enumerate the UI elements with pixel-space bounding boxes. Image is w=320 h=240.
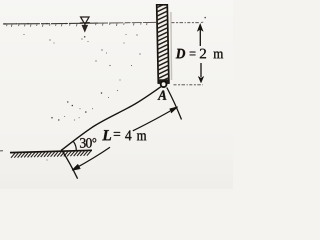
extension line at A bbox=[167, 88, 182, 120]
top ground tick marks bbox=[7, 23, 147, 27]
water table symbol bbox=[80, 17, 90, 38]
stray mark at left edge bbox=[0, 150, 3, 152]
L dimension line lower segment with arrow bbox=[72, 147, 110, 170]
30 degree angle arc bbox=[73, 142, 76, 151]
sheet-pile wall bbox=[151, 0, 174, 90]
stray fleck near arrow tip bbox=[204, 17, 206, 19]
label A bbox=[158, 91, 167, 100]
bottom-left ground surface with hatching bbox=[10, 150, 92, 158]
paper background bbox=[0, 0, 233, 189]
node at A (hinge circle) bbox=[161, 81, 167, 87]
label L = 4 m bbox=[102, 130, 146, 140]
D dimension up arrow bbox=[198, 24, 203, 46]
top right dashed line bbox=[172, 22, 200, 24]
bottom right dashed line bbox=[174, 84, 204, 86]
label 30deg bbox=[80, 138, 96, 148]
sloping ground line bbox=[61, 87, 161, 151]
label D = 2 m bbox=[176, 49, 223, 59]
D dimension down arrow bbox=[198, 63, 203, 83]
pile scan ghost edge bbox=[170, 12, 173, 80]
L dimension line upper segment with arrow bbox=[133, 107, 178, 131]
extension line at vertex bbox=[62, 151, 78, 179]
top ground surface line bbox=[3, 22, 156, 24]
pile toe dark cap bbox=[159, 79, 169, 84]
soil specks (scan texture) bbox=[23, 34, 140, 161]
